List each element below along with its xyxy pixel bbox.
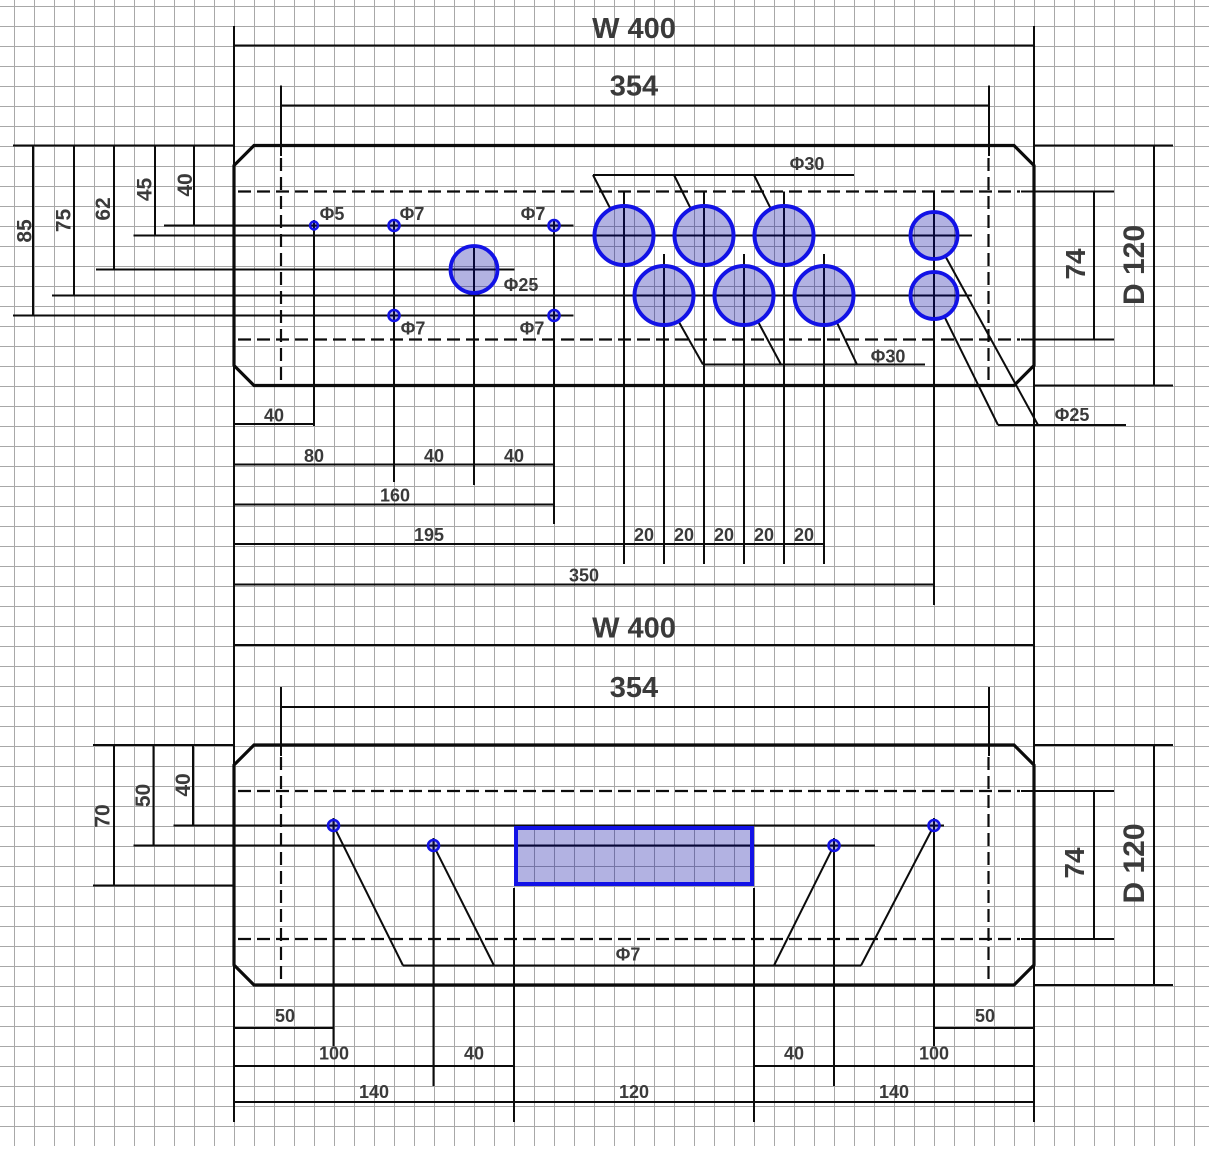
centerline row y=226 (Phi5/Phi7 holes) bbox=[164, 225, 574, 227]
centerline x=934 (right Phi25 pair) bbox=[933, 192, 935, 606]
svg-text:W 400: W 400 bbox=[592, 13, 676, 45]
dim line 140/120/140 bbox=[234, 1101, 1034, 1103]
svg-text:20: 20 bbox=[714, 525, 734, 545]
dim label 75 bbox=[53, 209, 76, 233]
centerline row y=846 (bottom view) bbox=[134, 845, 876, 847]
svg-text:20: 20 bbox=[634, 525, 654, 545]
dim line 40 (to Phi5) bbox=[234, 423, 314, 425]
svg-text:20: 20 bbox=[754, 525, 774, 545]
extension line 74 bottom (bottom view) bbox=[1021, 938, 1114, 940]
line y=886 rect bottom reference bbox=[93, 885, 235, 887]
centerline x=474 (Phi25 hole) bbox=[473, 245, 475, 485]
extension line D120 bottom (top view) bbox=[1035, 385, 1173, 387]
svg-text:140: 140 bbox=[879, 1082, 909, 1102]
svg-text:354: 354 bbox=[610, 71, 658, 103]
panel outline top view (chamfered rectangle 400x120) bbox=[234, 146, 1034, 386]
centerline x=334 (mount hole 1) bbox=[333, 818, 335, 1046]
svg-text:354: 354 bbox=[610, 672, 658, 704]
leader from button E bbox=[758, 322, 781, 365]
dashed margin line left (top view) bbox=[280, 158, 282, 382]
centerline x=934 (mount hole 4) bbox=[933, 818, 935, 1046]
dim line 62 bbox=[113, 146, 115, 270]
dashed margin line right (top view) bbox=[987, 158, 989, 382]
svg-text:40: 40 bbox=[424, 446, 444, 466]
dim line D120 (bottom view) bbox=[1153, 745, 1155, 985]
extension line right edge x=1034 (shared) bbox=[1033, 26, 1035, 1122]
dim label 45 bbox=[134, 178, 157, 202]
svg-text:D 120: D 120 bbox=[1118, 823, 1151, 903]
extension line D120 top (top view) bbox=[1035, 145, 1173, 147]
dim line 350 bbox=[234, 584, 934, 586]
svg-text:40: 40 bbox=[784, 1044, 804, 1064]
centerline x=314 (Phi5 hole) bbox=[313, 220, 315, 426]
cable slot rectangle 120x30 bbox=[516, 828, 752, 884]
dim label 40 (left) bbox=[174, 173, 197, 196]
dim line 354 (bottom view) bbox=[281, 706, 989, 708]
leader from button F bbox=[837, 322, 857, 364]
extension line left edge x=234 (shared) bbox=[233, 26, 235, 1122]
dim line 354 (top view) bbox=[281, 105, 989, 107]
centerline row y=316 (lower Phi7 holes) bbox=[13, 315, 574, 317]
dim line 85 bbox=[32, 146, 34, 316]
dim line 50 right bbox=[934, 1027, 1034, 1029]
centerline x=824 (button F) bbox=[823, 254, 825, 564]
hole Phi5 at (40,40) bbox=[310, 222, 318, 230]
leader from mount hole 2 bbox=[436, 850, 494, 965]
leader from mount hole 4 bbox=[861, 830, 932, 965]
dashed margin line bottom (bottom view) bbox=[238, 938, 1020, 940]
leader shelf line Phi7 (bottom view) bbox=[403, 965, 861, 967]
mount hole Phi7 #4 bbox=[929, 820, 940, 831]
dim line 195 + 20x5 bbox=[234, 543, 824, 545]
dashed margin line top (top view) bbox=[238, 190, 1020, 192]
svg-text:Φ7: Φ7 bbox=[521, 204, 546, 224]
extension line 74 bottom (top view) bbox=[1021, 339, 1114, 341]
reference line y=745 left (bottom view) bbox=[93, 744, 234, 746]
svg-text:40: 40 bbox=[504, 446, 524, 466]
hole Phi7 at (160,40) bbox=[549, 220, 560, 231]
centerline x=704 (button B) bbox=[703, 192, 705, 565]
panel outline bottom view (chamfered rectangle 400x120) bbox=[234, 745, 1034, 985]
svg-text:20: 20 bbox=[794, 525, 814, 545]
extension line 354 left (bottom view) bbox=[280, 687, 282, 756]
mount hole Phi7 #2 bbox=[428, 840, 439, 851]
leader to button A bbox=[593, 175, 610, 209]
centerline x=554 (Phi7 holes) bbox=[553, 219, 555, 524]
svg-text:Φ7: Φ7 bbox=[400, 204, 425, 224]
leader from mount hole 3 bbox=[774, 850, 832, 965]
dim line 70 bbox=[113, 745, 115, 886]
svg-text:Φ7: Φ7 bbox=[401, 319, 426, 339]
dim label 74 (top view) bbox=[1060, 248, 1091, 280]
hole Phi7 at (80,40) bbox=[389, 220, 400, 231]
button hole Phi30 E bbox=[715, 266, 774, 325]
extension line D120 top (bottom view) bbox=[1035, 744, 1173, 746]
svg-text:70: 70 bbox=[92, 804, 115, 827]
centerline x=744 (button E) bbox=[743, 254, 745, 564]
dashed margin line left (bottom view) bbox=[280, 757, 282, 980]
svg-text:Φ30: Φ30 bbox=[871, 347, 906, 367]
centerline x=394 (Phi7 holes) bbox=[393, 219, 395, 482]
extension line 354 right (top view) bbox=[988, 86, 990, 157]
svg-text:Φ30: Φ30 bbox=[790, 154, 825, 174]
button hole Phi30 D bbox=[635, 266, 694, 325]
mount hole Phi7 #1 bbox=[328, 820, 339, 831]
leader from mount hole 1 bbox=[336, 830, 403, 965]
button hole Phi30 B bbox=[675, 206, 734, 265]
svg-text:40: 40 bbox=[264, 406, 284, 426]
svg-text:75: 75 bbox=[53, 209, 76, 233]
svg-text:W 400: W 400 bbox=[592, 613, 676, 645]
dashed margin line right (bottom view) bbox=[987, 757, 989, 980]
svg-text:Φ25: Φ25 bbox=[1055, 405, 1090, 425]
hole Phi7 at (160,85) bbox=[549, 310, 560, 321]
dim label 85 bbox=[14, 219, 37, 243]
dim line W400 (top view) bbox=[234, 45, 1034, 47]
dim line 45 bbox=[154, 146, 156, 236]
dim line 40 (left, bottom view) bbox=[192, 745, 194, 826]
dim label 74 (bottom view) bbox=[1059, 847, 1090, 879]
svg-text:45: 45 bbox=[134, 178, 157, 202]
svg-text:140: 140 bbox=[359, 1082, 389, 1102]
centerline row y=236 (button row 1) bbox=[134, 235, 973, 237]
dashed margin line top (bottom view) bbox=[238, 790, 1020, 792]
svg-text:50: 50 bbox=[132, 784, 155, 807]
svg-text:120: 120 bbox=[619, 1082, 649, 1102]
leader from lower right Phi25 hole bbox=[944, 317, 998, 425]
centerline row y=826 (bottom view) bbox=[174, 825, 945, 827]
hole Phi25 lower right bbox=[911, 272, 958, 319]
dim line 74 (bottom view) bbox=[1093, 791, 1095, 939]
svg-text:40: 40 bbox=[174, 173, 197, 196]
dim line 160 bbox=[234, 504, 554, 506]
centerline row y=296 (button row 2) bbox=[52, 295, 972, 297]
mount hole Phi7 #3 bbox=[829, 840, 840, 851]
dim label 70 bbox=[92, 804, 115, 827]
dim label 62 bbox=[92, 197, 115, 220]
dim label D 120 (bottom view) bbox=[1118, 823, 1151, 903]
button hole Phi30 C bbox=[755, 206, 814, 265]
dim line 74 (top view) bbox=[1093, 192, 1095, 340]
svg-text:Φ5: Φ5 bbox=[320, 204, 345, 224]
svg-text:195: 195 bbox=[414, 525, 444, 545]
leader to button C bbox=[754, 175, 771, 209]
dim line 75 bbox=[73, 146, 75, 296]
svg-text:350: 350 bbox=[569, 566, 599, 586]
extension line 74 top (top view) bbox=[1021, 191, 1114, 193]
dim line 40/100 right bbox=[754, 1065, 1034, 1067]
svg-text:Φ7: Φ7 bbox=[616, 945, 641, 965]
dim line W400 (bottom view) bbox=[234, 644, 1034, 646]
leader from button D bbox=[679, 321, 704, 364]
svg-text:Φ25: Φ25 bbox=[504, 275, 539, 295]
leader shelf line Phi30 top bbox=[593, 174, 854, 176]
extension x=514 (slot left) bbox=[513, 888, 515, 1122]
leader shelf line Phi30 bottom bbox=[703, 364, 925, 366]
reference line y=146 left (top view) bbox=[13, 145, 234, 147]
svg-text:62: 62 bbox=[92, 197, 115, 220]
svg-text:100: 100 bbox=[919, 1044, 949, 1064]
leader from upper right Phi25 hole bbox=[945, 256, 1038, 425]
svg-text:80: 80 bbox=[304, 446, 324, 466]
extension line 74 top (bottom view) bbox=[1021, 790, 1114, 792]
extension line 354 right (bottom view) bbox=[988, 687, 990, 756]
hole Phi7 at (80,85) bbox=[389, 310, 400, 321]
svg-text:85: 85 bbox=[14, 219, 37, 243]
button hole Phi30 F bbox=[795, 266, 854, 325]
centerline x=834 (mount hole 3) bbox=[833, 838, 835, 1086]
svg-text:40: 40 bbox=[172, 773, 195, 796]
dim label 50 (left side) bbox=[132, 784, 155, 807]
leader shelf line Phi25 right bbox=[998, 424, 1126, 426]
svg-text:40: 40 bbox=[464, 1044, 484, 1064]
centerline x=664 (button D) bbox=[663, 254, 665, 564]
svg-text:100: 100 bbox=[319, 1044, 349, 1064]
dim line D120 (top view) bbox=[1153, 146, 1155, 386]
svg-text:160: 160 bbox=[380, 486, 410, 506]
extension x=754 (slot right) bbox=[753, 888, 755, 1122]
dim line 80/40/40 bbox=[234, 464, 554, 466]
dashed margin line bottom (top view) bbox=[238, 338, 1020, 340]
dim label 40 (left side) bbox=[172, 773, 195, 796]
dim label D 120 (top view) bbox=[1118, 225, 1151, 305]
centerline y=270 (Phi25 hole) bbox=[96, 269, 515, 271]
centerline x=784 (button C) bbox=[783, 192, 785, 565]
dim line 50 left bbox=[234, 1027, 334, 1029]
extension line D120 bottom (bottom view) bbox=[1035, 984, 1173, 986]
svg-text:D 120: D 120 bbox=[1118, 225, 1151, 305]
hole Phi25 upper right bbox=[911, 212, 958, 259]
svg-text:74: 74 bbox=[1060, 248, 1091, 280]
hole Phi25 joystick bbox=[451, 246, 498, 293]
leader to button B bbox=[674, 175, 691, 209]
dim line 40 (left) bbox=[193, 146, 195, 226]
extension line 354 left (top view) bbox=[280, 86, 282, 157]
button hole Phi30 A bbox=[595, 206, 654, 265]
svg-text:50: 50 bbox=[275, 1006, 295, 1026]
dim line 100/40 left bbox=[234, 1065, 514, 1067]
svg-text:Φ7: Φ7 bbox=[520, 319, 545, 339]
centerline x=434 (mount hole 2) bbox=[433, 838, 435, 1086]
svg-text:20: 20 bbox=[674, 525, 694, 545]
svg-text:50: 50 bbox=[975, 1006, 995, 1026]
dim line 50 (left, bottom view) bbox=[153, 745, 155, 846]
centerline x=624 (button A) bbox=[623, 192, 625, 565]
svg-text:74: 74 bbox=[1059, 847, 1090, 879]
